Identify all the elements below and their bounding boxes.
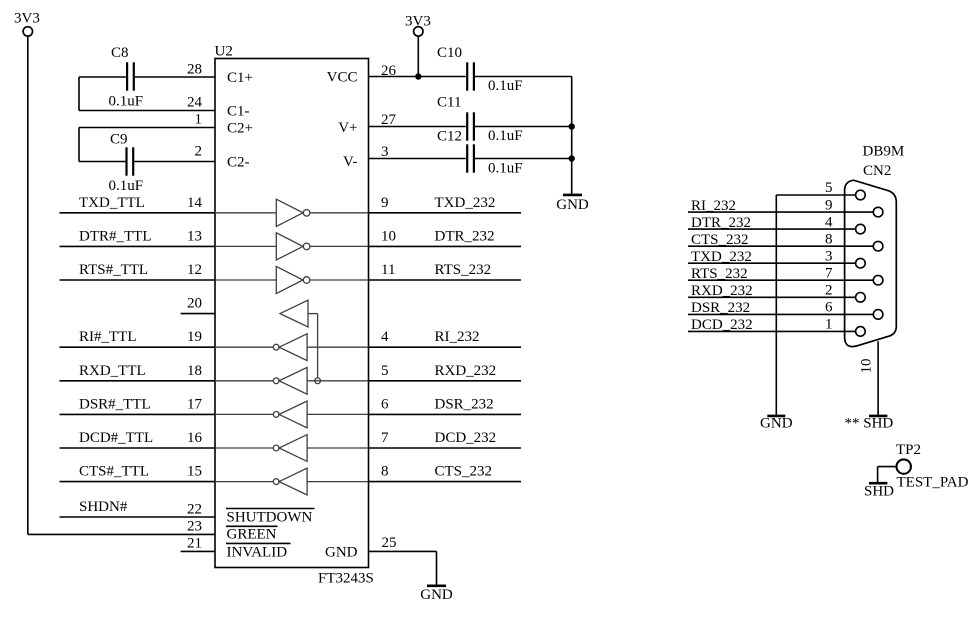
pin number 14 — [187, 195, 203, 211]
wire net DCD_232 to CN2 pin 1 — [688, 330, 856, 332]
svg-text:GND: GND — [556, 197, 589, 213]
svg-text:7: 7 — [825, 265, 833, 281]
svg-text:C1+: C1+ — [227, 70, 253, 86]
svg-text:4: 4 — [825, 214, 833, 230]
wire net RI#_TTL pin 19 — [60, 346, 216, 348]
connector CN2 DB9M body — [845, 180, 897, 346]
pin name GND — [325, 545, 358, 561]
pin number 13 — [187, 228, 202, 244]
net label RI_232 (CN2 side) — [691, 198, 736, 214]
pin number 23 — [187, 519, 202, 535]
net label DSR_232 (CN2 side) — [691, 300, 750, 316]
wire net DTR_232 pin 10 — [369, 245, 522, 247]
pin number 25 — [382, 535, 397, 551]
label CN2 — [863, 163, 891, 179]
value 0.1uF (C12) — [488, 161, 523, 177]
net label DCD_232 (CN2 side) — [691, 317, 753, 333]
svg-text:TXD_TTL: TXD_TTL — [79, 195, 145, 211]
svg-text:15: 15 — [187, 464, 202, 480]
ground SHD (TP2) — [864, 483, 894, 499]
pin name C1+ — [227, 70, 253, 86]
svg-text:C11: C11 — [437, 95, 461, 111]
wire net DCD#_TTL pin 16 — [60, 447, 216, 449]
svg-text:GND: GND — [420, 587, 453, 603]
pin name C2- — [227, 155, 250, 171]
wire 3V3 left rail to pin 23 — [28, 36, 215, 534]
ground GND (capacitor rail) — [556, 195, 589, 213]
net label TXD_232 — [435, 195, 496, 211]
pin number 4 — [381, 329, 389, 345]
junction VCC node — [415, 73, 421, 79]
pin number 2 — [195, 144, 203, 160]
capacitor C9 — [79, 147, 215, 175]
pin number 16 — [187, 430, 203, 446]
wire TP2 to SHD — [878, 467, 897, 483]
svg-text:RXD_232: RXD_232 — [435, 363, 497, 379]
receiver buffer R3 (pin 6 to pin 17) — [215, 401, 369, 428]
pin number 8 (CN2) — [825, 231, 833, 247]
wire net DSR_232 pin 6 — [369, 413, 522, 415]
pin number 7 (CN2) — [825, 265, 833, 281]
pin number 26 — [381, 63, 397, 79]
wire net TXD_TTL pin 14 — [60, 212, 216, 214]
pin number 5 (CN2) — [825, 180, 833, 196]
label C12 — [437, 129, 462, 145]
pin name V+ — [338, 120, 357, 136]
svg-text:DTR_232: DTR_232 — [691, 215, 751, 231]
wire net CTS#_TTL pin 15 — [60, 481, 216, 483]
receiver buffer R2B (pin 20, always-on) — [280, 300, 321, 383]
driver buffer T2 (pin 13 to 10) — [215, 233, 369, 260]
net label DTR_232 (CN2 side) — [691, 215, 751, 231]
svg-text:0.1uF: 0.1uF — [488, 161, 523, 177]
wire pin 3 V- — [369, 158, 466, 160]
wire net DTR#_TTL pin 13 — [60, 245, 216, 247]
svg-text:20: 20 — [187, 296, 202, 312]
svg-text:4: 4 — [381, 329, 389, 345]
label TP2 — [896, 442, 921, 458]
svg-text:26: 26 — [381, 63, 397, 79]
pin name V- — [343, 154, 357, 170]
connector pin 7 circle — [873, 275, 883, 285]
pin number 3 (CN2) — [825, 248, 833, 264]
svg-text:GND: GND — [760, 416, 793, 432]
wire pin 20 stub — [181, 313, 215, 315]
svg-text:2: 2 — [825, 283, 833, 299]
svg-text:8: 8 — [825, 231, 833, 247]
net label CTS_232 (CN2 side) — [691, 232, 749, 248]
pin number 4 (CN2) — [825, 214, 833, 230]
connector pin 9 circle — [873, 207, 883, 217]
ground ** SHD (CN2 shield) — [845, 416, 894, 432]
wire pin 26 VCC — [369, 76, 466, 78]
net label DCD#_TTL — [79, 430, 153, 446]
connector pin 3 circle — [856, 258, 866, 268]
wire net RXD_TTL pin 18 — [60, 380, 216, 382]
wire GND rail (CN2 pin 5) — [775, 195, 777, 415]
net label RI#_TTL — [79, 329, 137, 345]
wire net SHDN# pin 22 — [60, 516, 216, 518]
wire net DCD_232 pin 7 — [369, 447, 522, 449]
pin number 17 — [187, 396, 203, 412]
svg-text:V-: V- — [343, 154, 357, 170]
pin name C2+ — [227, 121, 253, 137]
capacitor C10 — [467, 62, 572, 90]
svg-text:RTS_232: RTS_232 — [691, 266, 748, 282]
svg-text:DSR_232: DSR_232 — [435, 396, 494, 412]
svg-text:1: 1 — [195, 112, 203, 128]
svg-text:TXD_232: TXD_232 — [691, 249, 752, 265]
pin number 21 — [187, 536, 202, 552]
capacitor C8 — [79, 62, 215, 90]
svg-text:SHD: SHD — [864, 484, 894, 500]
svg-text:9: 9 — [825, 197, 833, 213]
net label CTS#_TTL — [79, 464, 149, 480]
capacitor C11 — [467, 112, 572, 140]
svg-text:13: 13 — [187, 228, 202, 244]
pin name GREEN with overline — [226, 526, 278, 542]
pin number 12 — [187, 262, 202, 278]
label DB9M — [863, 144, 905, 160]
value 0.1uF (C9) — [109, 178, 144, 194]
svg-text:RI#_TTL: RI#_TTL — [79, 329, 137, 345]
pin number 9 (CN2) — [825, 197, 833, 213]
label C8 — [111, 45, 129, 61]
svg-text:CTS_232: CTS_232 — [691, 232, 749, 248]
pin name VCC — [327, 70, 358, 86]
pin number 27 — [381, 112, 397, 128]
receiver buffer R4 (pin 7 to pin 16) — [215, 435, 369, 462]
wire capacitor right rail — [571, 77, 573, 194]
wire net RXD_232 pin 5 — [369, 380, 522, 382]
svg-text:10: 10 — [859, 359, 875, 374]
wire C8 left rail pin28 to pin24 — [79, 77, 215, 111]
pin number 11 — [381, 262, 395, 278]
wire net CTS_232 pin 8 — [369, 481, 522, 483]
net label RXD_232 (CN2 side) — [691, 283, 753, 299]
svg-text:VCC: VCC — [327, 70, 358, 86]
wire net TXD_232 to CN2 pin 3 — [688, 262, 856, 264]
wire net RI_232 to CN2 pin 9 — [688, 211, 873, 213]
svg-text:FT3243S: FT3243S — [318, 571, 374, 587]
net label DSR#_TTL — [79, 396, 151, 412]
svg-text:DTR#_TTL: DTR#_TTL — [79, 228, 152, 244]
pin name INVALID with overline — [226, 543, 291, 560]
svg-text:DCD_232: DCD_232 — [691, 317, 753, 333]
svg-text:RTS#_TTL: RTS#_TTL — [79, 262, 148, 278]
svg-text:9: 9 — [381, 195, 389, 211]
wire net CTS_232 to CN2 pin 8 — [688, 245, 873, 247]
connector pin 8 circle — [873, 241, 883, 251]
svg-text:DTR_232: DTR_232 — [435, 228, 495, 244]
svg-text:0.1uF: 0.1uF — [488, 128, 523, 144]
power 3V3 (left) — [14, 11, 40, 37]
net label DSR_232 — [435, 396, 494, 412]
net label SHDN# — [79, 499, 128, 515]
net label CTS_232 — [435, 464, 493, 480]
wire net RTS_232 pin 11 — [369, 279, 522, 281]
receiver buffer R2 (pin 5 to pin 18) — [215, 367, 369, 394]
pin number 2 (CN2) — [825, 283, 833, 299]
pin number 1 — [195, 112, 203, 128]
svg-text:RI_232: RI_232 — [435, 329, 480, 345]
svg-text:C8: C8 — [111, 45, 129, 61]
wire net RTS_232 to CN2 pin 7 — [688, 279, 873, 281]
svg-text:DB9M: DB9M — [863, 144, 905, 160]
label C9 — [110, 132, 128, 148]
svg-text:DSR#_TTL: DSR#_TTL — [79, 396, 151, 412]
label C11 — [437, 95, 461, 111]
svg-text:** SHD: ** SHD — [845, 416, 894, 432]
connector pin 1 circle — [856, 327, 866, 337]
svg-text:8: 8 — [381, 464, 389, 480]
driver buffer T3 (pin 12 to 11) — [215, 266, 369, 293]
svg-text:V+: V+ — [338, 120, 357, 136]
net label TXD_232 (CN2 side) — [691, 249, 752, 265]
pin number 7 — [381, 430, 389, 446]
value 0.1uF (C8) — [109, 94, 144, 110]
svg-text:CTS#_TTL: CTS#_TTL — [79, 464, 149, 480]
svg-text:23: 23 — [187, 519, 202, 535]
svg-text:C2+: C2+ — [227, 121, 253, 137]
svg-text:0.1uF: 0.1uF — [488, 78, 523, 94]
svg-text:GND: GND — [325, 545, 358, 561]
svg-text:11: 11 — [381, 262, 395, 278]
wire net DSR_232 to CN2 pin 6 — [688, 313, 873, 315]
svg-text:1: 1 — [825, 317, 833, 333]
pin number 9 — [381, 195, 389, 211]
op-amp U2 IC body FT3243S — [215, 59, 369, 568]
net label DTR#_TTL — [79, 228, 152, 244]
label TEST_PAD — [897, 475, 969, 491]
net label RXD_232 — [435, 363, 497, 379]
wire net DSR#_TTL pin 17 — [60, 413, 216, 415]
test pad TP2 — [897, 459, 911, 473]
svg-text:RXD_TTL: RXD_TTL — [79, 363, 146, 379]
svg-text:0.1uF: 0.1uF — [109, 178, 144, 194]
svg-text:TXD_232: TXD_232 — [435, 195, 496, 211]
svg-text:22: 22 — [187, 502, 202, 518]
pin number 24 — [187, 95, 203, 111]
svg-text:DSR_232: DSR_232 — [691, 300, 750, 316]
svg-text:C2-: C2- — [227, 155, 250, 171]
junction C11 rail — [569, 123, 575, 129]
svg-text:CN2: CN2 — [863, 163, 891, 179]
svg-text:12: 12 — [187, 262, 202, 278]
pin number 19 — [187, 329, 202, 345]
receiver buffer R5 (pin 8 to pin 15) — [215, 468, 369, 495]
net label RXD_TTL — [79, 363, 146, 379]
ground GND (pin 25) — [420, 586, 453, 603]
svg-text:INVALID: INVALID — [227, 545, 288, 561]
wire pin 21 stub — [181, 550, 215, 552]
svg-text:6: 6 — [381, 396, 389, 412]
net label RTS_232 (CN2 side) — [691, 266, 748, 282]
junction C12 rail — [569, 155, 575, 161]
label C10 — [437, 45, 462, 61]
connector pin 2 circle — [856, 293, 866, 303]
svg-text:CTS_232: CTS_232 — [435, 464, 493, 480]
svg-text:16: 16 — [187, 430, 203, 446]
svg-text:5: 5 — [381, 363, 389, 379]
svg-text:C1-: C1- — [227, 104, 250, 120]
connector pin 5 circle — [856, 190, 866, 200]
wire net RXD_232 to CN2 pin 2 — [688, 296, 856, 298]
wire net TXD_232 pin 9 — [369, 212, 522, 214]
svg-text:14: 14 — [187, 195, 203, 211]
svg-text:DCD#_TTL: DCD#_TTL — [79, 430, 153, 446]
pin number 3 — [381, 144, 389, 160]
wire net DTR_232 to CN2 pin 4 — [688, 228, 856, 230]
svg-text:19: 19 — [187, 329, 202, 345]
svg-text:28: 28 — [187, 62, 202, 78]
svg-text:SHDN#: SHDN# — [79, 499, 128, 515]
net label RTS#_TTL — [79, 262, 148, 278]
connector pin 4 circle — [856, 224, 866, 234]
net label RTS_232 — [435, 262, 492, 278]
svg-text:3: 3 — [381, 144, 389, 160]
svg-text:C10: C10 — [437, 45, 462, 61]
ground GND (CN2) — [760, 416, 793, 432]
svg-text:3V3: 3V3 — [14, 11, 40, 27]
svg-text:24: 24 — [187, 95, 203, 111]
svg-text:17: 17 — [187, 396, 203, 412]
svg-text:U2: U2 — [215, 44, 233, 60]
power 3V3 (VCC) — [405, 14, 431, 77]
pin number 5 — [381, 363, 389, 379]
connector pin 6 circle — [873, 310, 883, 320]
svg-text:SHUTDOWN: SHUTDOWN — [227, 510, 313, 526]
pin number 10 (CN2 shield, rotated) — [859, 359, 875, 374]
pin number 6 — [381, 396, 389, 412]
svg-text:DCD_232: DCD_232 — [435, 430, 497, 446]
svg-text:5: 5 — [825, 180, 833, 196]
net label RI_232 — [435, 329, 480, 345]
svg-text:RXD_232: RXD_232 — [691, 283, 753, 299]
svg-text:10: 10 — [381, 228, 396, 244]
pin number 20 — [187, 296, 202, 312]
capacitor C12 — [467, 144, 572, 172]
svg-text:RI_232: RI_232 — [691, 198, 736, 214]
net label DTR_232 — [435, 228, 495, 244]
svg-text:C12: C12 — [437, 129, 462, 145]
svg-text:TP2: TP2 — [896, 442, 921, 458]
pin number 15 — [187, 464, 202, 480]
svg-text:6: 6 — [825, 300, 833, 316]
pin name SHUTDOWN with overline — [226, 509, 315, 526]
svg-text:2: 2 — [195, 144, 203, 160]
svg-text:GREEN: GREEN — [227, 527, 277, 543]
wire net RTS#_TTL pin 12 — [60, 279, 216, 281]
pin number 1 (CN2) — [825, 317, 833, 333]
wire CN2 pin 5 to GND rail — [776, 194, 855, 196]
svg-text:27: 27 — [381, 112, 397, 128]
pin number 28 — [187, 62, 202, 78]
value 0.1uF (C11) — [488, 128, 523, 144]
wire CN2 pin 10 shield — [877, 341, 879, 415]
value 0.1uF (C10) — [488, 78, 523, 94]
svg-text:18: 18 — [187, 363, 202, 379]
label FT3243S — [318, 571, 374, 587]
wire pin 27 V+ — [369, 126, 466, 128]
pin number 18 — [187, 363, 202, 379]
receiver buffer R1 (pin 4 to pin 19) — [215, 334, 369, 361]
svg-text:3: 3 — [825, 248, 833, 264]
pin number 22 — [187, 502, 202, 518]
label U2 — [215, 44, 233, 60]
pin number 6 (CN2) — [825, 300, 833, 316]
svg-text:7: 7 — [381, 430, 389, 446]
net label TXD_TTL — [79, 195, 145, 211]
svg-text:25: 25 — [382, 535, 397, 551]
wire net RI_232 pin 4 — [369, 346, 522, 348]
svg-text:21: 21 — [187, 536, 202, 552]
wire pin 1 C2+ — [79, 128, 215, 162]
svg-text:RTS_232: RTS_232 — [435, 262, 492, 278]
pin name C1- — [227, 104, 250, 120]
svg-text:TEST_PAD: TEST_PAD — [897, 475, 969, 491]
pin number 8 — [381, 464, 389, 480]
net label DCD_232 — [435, 430, 497, 446]
pin number 10 — [381, 228, 396, 244]
driver buffer T1 (pin 14 to 9) — [215, 199, 369, 226]
svg-text:C9: C9 — [110, 132, 128, 148]
svg-text:0.1uF: 0.1uF — [109, 94, 144, 110]
wire pin 25 GND — [369, 551, 437, 585]
